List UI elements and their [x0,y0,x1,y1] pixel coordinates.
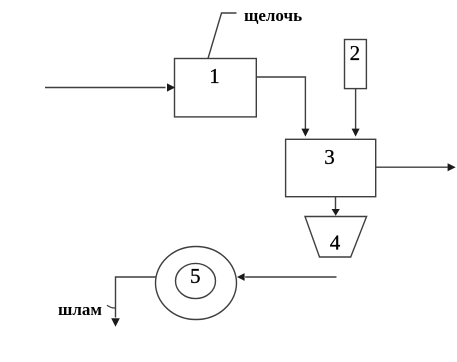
svg-text:шлам: шлам [58,300,102,319]
block 2 (dosing tank) [345,40,367,89]
drum 5 outer circle [156,247,237,320]
svg-text:щелочь: щелочь [244,6,302,25]
block 3 (reactor) [286,139,376,196]
wire from block 2 to block 3 [355,89,357,130]
arrow into drum 5 [245,276,336,278]
callout line to label щелочь [208,13,237,59]
drum 5 inner circle [176,263,216,298]
sludge outlet wire from drum 5 [116,277,157,318]
svg-text:4: 4 [330,231,341,255]
feed arrow into block 1 [45,87,166,89]
wire block 3 to funnel 4 [335,197,337,210]
leader tick to шлам [107,305,116,308]
funnel 4 (trapezoid) [305,217,367,258]
svg-text:2: 2 [350,41,361,65]
svg-text:3: 3 [324,145,335,169]
wire from block 1 to block 3 [256,77,305,129]
svg-text:1: 1 [209,64,220,88]
product arrow out of block 3 [376,166,448,168]
block 1 (mixer) [175,59,257,117]
svg-text:5: 5 [190,264,201,288]
